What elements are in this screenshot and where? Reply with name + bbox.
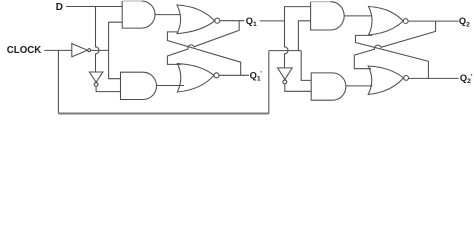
wire CLOCK input to inverter U1	[44, 49, 72, 51]
wire NOR4 output to Q2' label	[409, 77, 459, 79]
wire Q1 branch down to inverter U3, hop over slave clock line	[285, 21, 289, 68]
wire slave clock line	[269, 50, 301, 52]
wire clock branch up to AND1	[109, 22, 123, 50]
node Q2' label	[460, 73, 473, 85]
node Q1 label	[246, 16, 257, 28]
wire AND3 output to NOR3	[344, 15, 371, 17]
wire riser bottom rail to slave clock line	[268, 51, 270, 114]
wire AND2 output to NOR2	[157, 85, 185, 87]
svg-text:CLOCK: CLOCK	[7, 45, 41, 56]
wire NOR2 output to Q1' label	[219, 74, 249, 76]
AND gate AND2 (master reset)	[121, 72, 157, 99]
NOR gate NOR4 (slave latch bottom)	[368, 66, 403, 94]
wire Q1 jog up to AND3 input	[285, 7, 311, 21]
NOR gate NOR2 (master latch bottom)	[177, 64, 214, 93]
wire D input to AND1	[66, 6, 122, 8]
wire Q1 label to slave stage	[260, 20, 285, 22]
AND gate AND3 (slave set)	[311, 2, 345, 30]
wire cross feedback Q2' to NOR3 input	[356, 35, 429, 78]
wire U1 output to clock branch node	[91, 49, 109, 51]
wire NOR1 output to Q1 label	[220, 20, 245, 22]
AND gate AND1 (master set)	[122, 1, 155, 28]
wire CLOCK tap down to bottom rail	[57, 50, 59, 113]
svg-text:Q2': Q2'	[460, 73, 473, 85]
wire slave clock down to AND4	[301, 51, 311, 81]
inverter U2 (D complement)	[89, 72, 103, 82]
wire D branch down to inverter U2, hop over clock wire	[96, 7, 100, 73]
node CLOCK input label	[7, 45, 41, 56]
inverter U3 (Q1 complement for slave)	[278, 68, 293, 80]
wire clock branch down to AND2	[109, 50, 121, 78]
svg-text:Q1: Q1	[246, 16, 257, 28]
wire NOR3 output to Q2 label	[408, 20, 459, 22]
wire cross feedback Q2 to NOR4 input	[354, 21, 435, 69]
wire bottom clock rail	[58, 113, 268, 115]
AND gate AND4 (slave reset)	[311, 73, 346, 100]
wire cross feedback Q1 to NOR2 input	[167, 21, 239, 65]
node Q1' label	[250, 70, 263, 82]
NOR gate NOR3 (slave latch top)	[369, 7, 404, 36]
wire U3 output to AND4	[285, 84, 311, 91]
svg-text:D: D	[56, 2, 63, 13]
node D input label	[56, 2, 63, 13]
svg-text:Q1': Q1'	[250, 70, 263, 82]
wire AND1 output to NOR1	[155, 14, 181, 16]
wire U2 output to AND2	[96, 87, 120, 92]
wire AND4 output to NOR4	[346, 85, 373, 87]
inverter U1 (clock inverter)	[72, 44, 88, 57]
wire cross feedback Q1' to NOR1 input	[167, 32, 240, 75]
node Q2 label	[459, 16, 470, 28]
wire slave clock up to AND3	[298, 21, 310, 51]
svg-text:Q2: Q2	[459, 16, 470, 28]
NOR gate NOR1 (master latch top)	[177, 5, 215, 34]
